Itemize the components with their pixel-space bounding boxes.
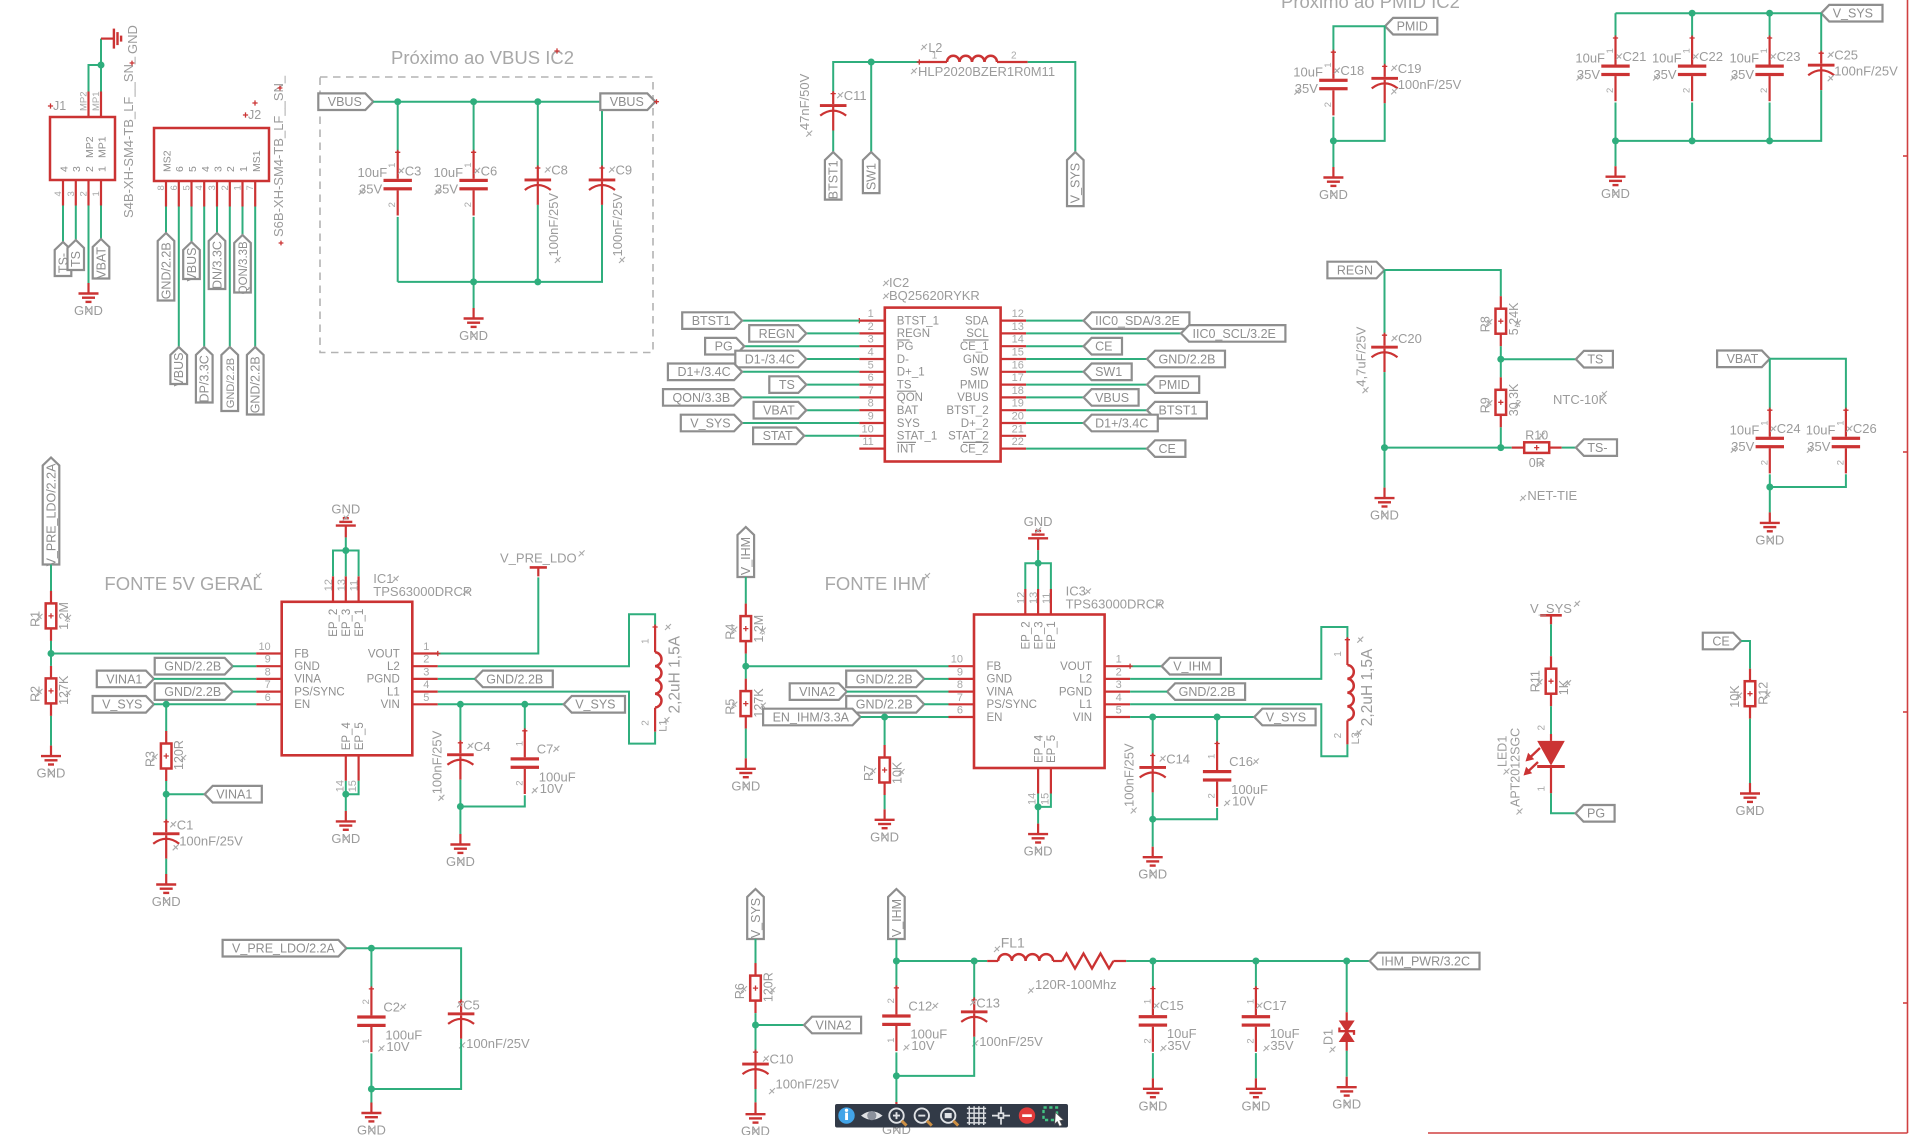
svg-text:TS: TS [897,379,912,391]
svg-text:35V: 35V [359,181,382,196]
svg-text:SDA: SDA [965,315,989,327]
wire [50,565,52,592]
capacitor C2 [357,986,422,1054]
junction [521,701,528,708]
svg-text:R10: R10 [1525,429,1548,443]
svg-text:2: 2 [1116,666,1122,678]
svg-text:1: 1 [1142,999,1153,1004]
svg-text:15: 15 [1039,793,1051,805]
wire [1562,447,1576,449]
svg-text:11: 11 [349,580,361,591]
junction [1149,714,1156,721]
node VBUS left [318,93,373,110]
node D1-/3.4C [735,351,806,368]
wire [745,729,747,759]
ground [331,501,360,537]
node VBAT [93,239,110,279]
svg-text:100nF/25V: 100nF/25V [1834,64,1898,79]
wire [1384,26,1386,65]
svg-text:SCL: SCL [966,328,989,340]
capacitor C25 [1808,48,1898,90]
wire [345,781,347,794]
svg-text:BTST_1: BTST_1 [897,315,939,327]
section title Proximo ao PMID IC2 [1281,0,1460,12]
svg-text:GND: GND [125,25,140,54]
svg-text:22: 22 [1012,436,1024,448]
svg-text:PS/SYNC: PS/SYNC [987,699,1038,711]
wire [438,678,475,680]
resistor R3 [144,731,187,781]
node GND/2.2B ic1-7 [155,683,233,700]
svg-text:3: 3 [66,191,77,196]
wire [1152,961,1154,987]
node V_SYS [1067,152,1084,206]
svg-text:2: 2 [1682,88,1693,93]
svg-text:PMID: PMID [960,379,989,391]
junction [1497,444,1504,451]
ground [152,874,181,909]
svg-text:2,2uH 1,5A: 2,2uH 1,5A [1359,648,1376,726]
svg-text:BQ25620RYKR: BQ25620RYKR [889,288,980,303]
wire [1769,359,1771,409]
LED LED1 APT2012SGC [1496,725,1565,815]
ground [1736,783,1765,818]
svg-text:21: 21 [1012,423,1024,435]
junction [98,62,105,69]
wire [178,207,180,348]
junction [342,791,349,798]
svg-text:EP_2: EP_2 [328,609,340,637]
wire [1691,103,1693,141]
svg-text:VINA: VINA [987,686,1014,698]
wire [1384,270,1386,334]
wire [473,102,475,151]
svg-text:100nF/25V: 100nF/25V [546,193,561,257]
svg-text:1: 1 [514,741,525,746]
svg-text:2: 2 [1537,725,1548,731]
wire [1551,793,1576,813]
svg-text:C19: C19 [1398,61,1422,76]
svg-text:100nF/25V: 100nF/25V [1398,77,1462,92]
svg-text:V_SYS: V_SYS [575,698,615,712]
svg-text:2: 2 [1333,732,1344,738]
svg-text:1: 1 [238,166,250,172]
wire [1026,371,1084,373]
svg-text:3: 3 [1116,679,1122,691]
svg-text:13: 13 [336,579,348,591]
svg-text:V_PRE_LDO/2.2A: V_PRE_LDO/2.2A [44,463,58,566]
resistor R5 [723,679,766,729]
svg-text:D1-/3.4C: D1-/3.4C [745,352,795,366]
wire [438,692,655,744]
ground [446,834,475,869]
wire [1037,794,1039,807]
wire [254,207,256,348]
node VBUS [1084,389,1139,406]
svg-text:FB: FB [294,648,309,660]
wire [1346,961,1348,1012]
svg-text:C8: C8 [551,163,568,178]
svg-text:13: 13 [1028,592,1040,604]
wire [1332,141,1334,167]
svg-text:6: 6 [174,166,186,172]
svg-text:VBUS: VBUS [328,95,362,109]
ground [459,308,488,343]
svg-text:1: 1 [1323,62,1334,67]
junction [893,958,900,965]
capacitor C16 [1203,741,1268,809]
wire [806,384,859,386]
capacitor C10 [742,1050,839,1095]
connector J1 [48,56,136,218]
svg-text:V_IHM: V_IHM [890,899,904,937]
wire [100,39,102,92]
wire [1026,448,1147,450]
ground [1601,166,1630,201]
wire [100,206,102,240]
wire [370,1089,372,1103]
wire [459,704,461,741]
wire [1769,103,1771,141]
wire [1255,1053,1257,1078]
svg-text:35V: 35V [1731,67,1754,82]
svg-text:GND/2.2B: GND/2.2B [249,356,263,413]
svg-text:C5: C5 [463,997,480,1012]
wire [165,781,167,794]
wire [973,961,975,998]
svg-text:VOUT: VOUT [368,648,400,660]
svg-text:V_PRE_LDO: V_PRE_LDO [500,550,577,565]
wire [1026,409,1147,411]
svg-text:V_SYS: V_SYS [690,416,730,430]
supply V_SYS led [1530,601,1580,625]
svg-text:2: 2 [868,321,874,333]
capacitor C3 [358,150,422,216]
wire [242,207,244,236]
junction [470,98,477,105]
capacitor C20 [1354,326,1422,393]
wire [537,102,539,167]
svg-text:C10: C10 [770,1052,794,1067]
wire [473,282,475,308]
svg-text:GND/2.2B: GND/2.2B [1159,352,1216,366]
junction [1766,10,1773,17]
node QON/3.3B [663,389,742,406]
wire [473,217,475,282]
node TS 2 [1576,351,1613,368]
section title Proximo ao VBUS IC2 [391,47,574,68]
wire [154,678,256,680]
svg-text:VBUS: VBUS [957,392,989,404]
svg-text:127K: 127K [57,675,71,705]
svg-text:VBAT: VBAT [1727,352,1759,366]
svg-text:35V: 35V [435,181,458,196]
wire [895,1076,897,1102]
wire [1126,960,1369,962]
wire [924,703,948,705]
inductor L2 [911,41,1055,79]
svg-text:14: 14 [1027,793,1039,805]
svg-text:BTST1: BTST1 [692,314,731,328]
wire [1026,345,1084,347]
svg-text:R9: R9 [1478,397,1492,413]
svg-text:VBUS: VBUS [1095,391,1129,405]
svg-text:GND: GND [963,354,989,366]
svg-text:TS: TS [69,251,83,267]
svg-text:PMID: PMID [1159,378,1190,392]
node VINA2 a [790,683,847,700]
svg-text:35V: 35V [1167,1038,1190,1053]
svg-text:QON: QON [897,392,923,404]
svg-text:C14: C14 [1166,752,1190,767]
wire [438,614,655,666]
svg-text:C2: C2 [383,999,400,1014]
wire [1769,487,1771,512]
node REGN [749,325,806,342]
wire [1152,792,1154,819]
svg-text:VIN: VIN [381,699,400,711]
svg-text:EP_1: EP_1 [354,609,366,637]
wire [1346,1051,1348,1077]
ground [870,809,899,844]
wire [755,939,757,966]
svg-text:V_PRE_LDO/2.2A: V_PRE_LDO/2.2A [232,942,335,956]
wire [745,654,747,667]
wire [895,1052,897,1076]
node BTST1 [682,312,742,329]
capacitor C22 [1652,35,1723,101]
svg-text:35V: 35V [1270,1038,1293,1053]
junction [342,547,349,554]
svg-text:10uF: 10uF [1730,423,1760,438]
node DN/3.3C [209,233,226,289]
svg-text:14: 14 [334,780,346,792]
svg-text:REGN: REGN [1337,263,1373,277]
svg-text:35V: 35V [1577,67,1600,82]
wire [742,371,859,373]
svg-text:8: 8 [265,666,271,678]
svg-text:10uF: 10uF [1652,51,1682,66]
svg-text:6: 6 [957,705,963,717]
capacitor C21 [1575,35,1646,101]
svg-text:120R: 120R [172,740,186,770]
wire [806,332,859,334]
svg-text:GND/2.2B: GND/2.2B [159,242,173,299]
svg-text:EP_2: EP_2 [1021,621,1033,649]
svg-text:GND: GND [987,674,1013,686]
svg-text:2: 2 [423,654,429,666]
svg-text:9: 9 [265,654,271,666]
svg-text:GND/2.2B: GND/2.2B [486,672,543,686]
svg-text:C26: C26 [1853,421,1877,436]
svg-text:11: 11 [1041,593,1053,604]
junction [163,701,170,708]
node IIC0_SCL/3.2E [1181,325,1285,342]
node SW1 [1084,364,1132,381]
svg-text:1: 1 [641,638,652,644]
svg-text:TS-: TS- [1587,441,1607,455]
svg-text:IIC0_SDA/3.2E: IIC0_SDA/3.2E [1095,314,1180,328]
svg-text:2: 2 [84,166,96,172]
wire [398,205,602,282]
svg-text:MS1: MS1 [251,150,263,172]
svg-text:GND/2.2B: GND/2.2B [164,685,221,699]
svg-text:R6: R6 [733,983,747,999]
svg-text:DP/3.3C: DP/3.3C [198,355,212,402]
svg-text:EP_3: EP_3 [1033,621,1045,649]
svg-text:R4: R4 [723,624,737,640]
node VINA1 a [97,671,154,688]
junction [1612,137,1619,144]
svg-text:2: 2 [1245,1038,1256,1043]
wire [1385,447,1512,449]
svg-text:NET-TIE: NET-TIE [1527,488,1577,503]
ground [1138,1078,1167,1113]
svg-text:15: 15 [1012,347,1024,359]
junction [893,1072,900,1079]
wire [1820,13,1822,52]
wire [745,577,747,604]
wire [1037,563,1039,589]
ground [731,758,760,793]
svg-text:6: 6 [169,185,180,190]
svg-text:VIN: VIN [1073,712,1092,724]
svg-text:VBAT: VBAT [763,404,795,418]
svg-text:EN: EN [294,699,310,711]
svg-text:1: 1 [387,163,398,168]
svg-text:STAT_2: STAT_2 [948,431,988,443]
svg-text:MP2: MP2 [79,91,90,111]
wire [1038,794,1051,807]
junction [1689,137,1696,144]
svg-text:1: 1 [868,308,874,320]
svg-text:47nF/50V: 47nF/50V [797,73,812,130]
wire [166,793,205,795]
node REGN 2 [1327,262,1384,279]
svg-text:STAT: STAT [763,429,793,443]
svg-text:2: 2 [1759,460,1770,465]
svg-text:3: 3 [71,166,83,172]
svg-text:D+_2: D+_2 [961,418,989,430]
svg-text:MP1: MP1 [97,136,109,158]
svg-text:QON/3.3B: QON/3.3B [673,391,731,405]
svg-text:18: 18 [1012,385,1024,397]
wire [1216,717,1218,742]
svg-text:4: 4 [200,166,212,172]
svg-text:GND/2.2B: GND/2.2B [856,672,913,686]
wire [742,396,860,398]
svg-text:2: 2 [1835,460,1846,465]
svg-text:TS: TS [1587,353,1603,367]
capacitor C12 [882,985,947,1053]
svg-text:L1: L1 [1079,699,1092,711]
node GND/2.2B ic3-7 [846,696,924,713]
node TS- [55,242,72,276]
svg-text:GND/2.2B: GND/2.2B [164,660,221,674]
wire [1037,550,1039,563]
svg-text:C7: C7 [537,741,554,756]
diode D1 [1322,1012,1355,1052]
svg-text:10V: 10V [386,1039,409,1054]
svg-text:VBUS: VBUS [172,352,186,386]
wire [1130,704,1347,756]
junction [368,1086,375,1093]
capacitor C15 [1139,986,1197,1053]
svg-text:R1: R1 [29,611,43,627]
svg-text:10V: 10V [540,781,563,796]
svg-text:TPS63000DRCR: TPS63000DRCR [373,584,472,599]
svg-text:1: 1 [361,1039,372,1044]
svg-text:3: 3 [207,185,218,190]
wire [459,807,461,835]
svg-text:D+_1: D+_1 [897,367,925,379]
node GND/2.2B [221,347,238,411]
junction [394,98,401,105]
wire [1615,141,1617,166]
wire [1026,422,1084,424]
capacitor C23 [1729,35,1800,101]
svg-text:C16: C16 [1229,754,1253,769]
node V_IHM r [1162,658,1221,675]
node V_SYS b [747,889,764,939]
wire [373,102,602,167]
svg-text:1: 1 [1333,651,1344,657]
ferrite FL1 [987,935,1126,994]
wire [459,780,461,807]
wire [755,1013,757,1025]
junction [881,714,888,721]
svg-text:8: 8 [156,185,167,190]
junction [1149,958,1156,965]
svg-text:EN_IHM/3.3A: EN_IHM/3.3A [773,710,850,724]
node IHM_PWR/3.2C [1370,953,1480,970]
svg-text:120R-100Mhz: 120R-100Mhz [1035,977,1117,992]
svg-text:TS: TS [779,378,795,392]
junction [457,701,464,708]
svg-text:REGN: REGN [897,328,930,340]
wire [1152,717,1154,754]
capacitor C8 [525,163,568,264]
svg-text:2: 2 [463,202,474,207]
svg-text:FL1: FL1 [1001,935,1025,951]
node VINA2 b [804,1017,861,1034]
svg-text:C18: C18 [1340,63,1364,78]
junction [368,945,375,952]
svg-text:2: 2 [1323,102,1334,107]
svg-text:SW1: SW1 [1095,365,1122,379]
wire [50,654,52,666]
svg-text:2: 2 [1759,88,1770,93]
svg-text:10uF: 10uF [1293,65,1323,80]
wire [1255,961,1257,987]
wire [884,717,886,745]
wire [1500,346,1502,377]
svg-text:1: 1 [1759,420,1770,425]
wire [1615,13,1617,36]
svg-text:PGND: PGND [367,674,400,686]
node PG led [1576,805,1615,822]
resistor R6 [733,963,776,1013]
svg-text:VINA2: VINA2 [799,685,835,699]
wire [1026,320,1084,322]
wire [165,859,167,874]
wire [370,1053,372,1089]
wire [1332,117,1334,141]
wire [346,781,359,794]
svg-text:J2: J2 [248,108,261,122]
svg-text:INT: INT [897,443,916,455]
svg-text:SW: SW [970,367,989,379]
